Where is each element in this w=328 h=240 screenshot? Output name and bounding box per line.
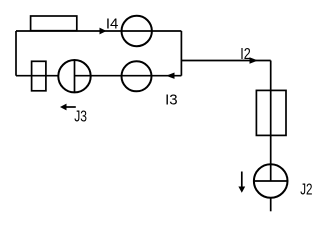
current source J3 vertical bar xyxy=(74,60,76,92)
wire I2 branch (horizontal to right branch) xyxy=(181,60,270,62)
circle source (top, on top wire) xyxy=(122,16,152,46)
wire right vertical (left loop) xyxy=(180,31,182,76)
current source J3 (circle) xyxy=(58,60,90,92)
svg-text:J2: J2 xyxy=(300,182,312,199)
arrowhead I2 (on branch wire, pointing right) xyxy=(250,57,259,63)
current source J2 horizontal bar xyxy=(254,180,288,182)
resistor (top, on top wire) xyxy=(31,16,77,31)
resistor (left small, on bottom wire) xyxy=(32,61,46,91)
wire top (left loop, horizontal) xyxy=(16,30,181,32)
arrowhead I3 (on bottom wire, pointing left) xyxy=(166,73,175,79)
arrow J3 (free arrow below J3 circle, pointing left) xyxy=(64,106,76,108)
resistor (right branch, vertical) xyxy=(256,90,286,135)
svg-text:I3: I3 xyxy=(165,92,178,109)
arrowhead I4 (on top wire, pointing right) xyxy=(100,28,107,35)
wire bottom stub below J2 xyxy=(270,198,272,212)
svg-text:I2: I2 xyxy=(240,46,251,63)
wire bottom right segment (from J3 centre through middle circle to corner) xyxy=(75,75,182,77)
wire right branch vertical (through resistor into J2 centre) xyxy=(270,61,272,182)
svg-text:I4: I4 xyxy=(106,16,119,33)
svg-text:J3: J3 xyxy=(74,108,87,125)
current source J2 (circle) xyxy=(254,164,288,198)
circle source (middle, on bottom wire) xyxy=(122,61,152,91)
arrow J2 (free arrow left of J2 circle, pointing down) xyxy=(241,172,243,189)
wire left vertical (left loop) xyxy=(15,31,17,76)
wire bottom left segment (to current source J3) xyxy=(16,75,58,77)
